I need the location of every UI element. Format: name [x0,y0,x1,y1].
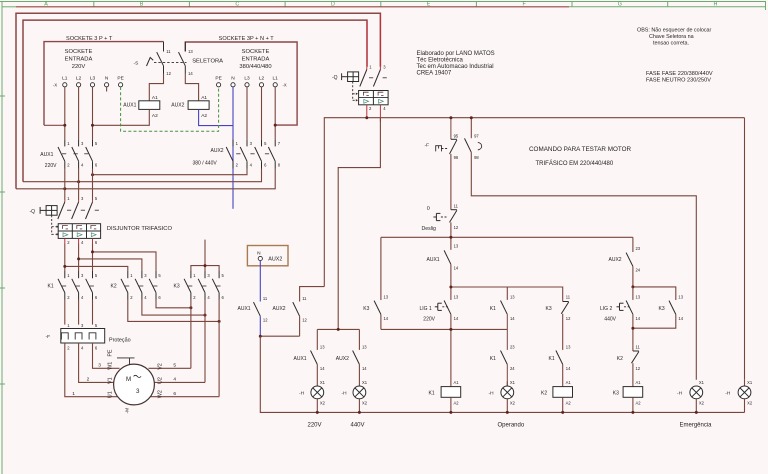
svg-text:K1: K1 [48,283,54,289]
svg-text:K1: K1 [490,306,496,312]
svg-text:11: 11 [166,49,171,54]
svg-text:X2: X2 [747,401,753,406]
contact K2 NC 11-12 [632,346,639,387]
sheet column letters [44,2,717,8]
labels K1s 13 14 [566,344,571,370]
labels AUX2 pins bottom [236,163,281,168]
svg-text:13: 13 [188,49,193,54]
labels AUX1 pins top [67,141,98,146]
svg-text:U2: U2 [157,377,163,384]
svg-text:23: 23 [636,246,641,251]
svg-text:TRIFÁSICO EM 220/440/480: TRIFÁSICO EM 220/440/480 [536,160,614,167]
wire top feed [16,6,569,8]
svg-text:X2: X2 [362,400,368,405]
labels K2 pins top [130,273,161,278]
svg-text:11: 11 [566,294,571,299]
svg-text:12: 12 [636,366,641,371]
labels Deslig pins [454,204,459,230]
labels AUX1lamp pins [320,344,325,370]
terminal L1 right [273,83,277,87]
motor PE lead [108,349,135,365]
label SELETORA [192,59,223,65]
svg-text:AUX2: AUX2 [273,306,286,312]
svg-text:L2: L2 [76,76,82,82]
svg-text:X1: X1 [699,380,705,385]
wire AUX2N feed [300,287,325,302]
labels K3 pins bottom [193,295,224,300]
contactor AUX2 contacts [226,140,275,169]
junction Q1 out2 [365,116,368,119]
svg-text:K1: K1 [429,391,435,397]
junction K2 feed R [63,265,66,268]
svg-text:440V: 440V [604,317,616,323]
svg-text:W2: W2 [157,390,163,398]
svg-text:AUX1: AUX1 [294,356,307,362]
svg-text:K3: K3 [546,306,552,312]
svg-text:A2: A2 [636,401,642,406]
junction rail top [449,116,452,119]
wire K1seal drop [506,287,508,300]
label LIG2 [600,306,612,312]
wire rail drop 95 [450,118,452,138]
text FASE [646,71,713,84]
label AUX1 lamp contact [294,356,307,362]
contact seletora 11-12 [157,42,164,74]
text elaborado [417,51,495,77]
wire K1 coil to bus [450,397,452,412]
svg-text:14: 14 [678,316,683,321]
label -Q disjuntor [30,209,36,215]
labels Q1 pins bottom [369,106,386,111]
contact LIG2 NO [626,301,633,346]
svg-text:K2: K2 [541,391,547,397]
motor M1 circle [114,364,155,405]
wire disjuntor out 6 [92,238,94,270]
junction 632 286 [631,285,634,288]
wire Q1 out4 red [379,105,381,122]
label A2 AUX2 [201,113,207,119]
wire lamp H4 to bus [695,399,697,413]
svg-text:A2: A2 [454,401,460,406]
wire K3seal feed [633,287,676,300]
wire N bus segment [260,335,299,337]
labels motor wire numbers right [173,362,176,396]
wire motor W1 [93,343,120,368]
label pin 12 [166,71,171,76]
wire lamp H3 to bus [506,399,508,413]
breaker Q2 poles [58,201,99,219]
svg-text:ENTRADA: ENTRADA [242,57,270,63]
junction bus R [63,187,66,190]
svg-text:SOCKETE: SOCKETE [65,49,93,55]
contact K1 series 13-14 [556,351,563,387]
labels AUX2 pins top [236,141,281,146]
wire red stub Q1 pin3 [379,14,381,67]
svg-text:98: 98 [474,155,479,160]
junction K2-K3 R [218,320,221,323]
label 220V LIG1 [423,317,435,323]
junction K3 bridge [204,264,207,267]
coil K3 [613,380,643,405]
svg-text:-M: -M [125,408,131,414]
svg-text:380 / 440V: 380 / 440V [193,161,218,167]
wire L1 drop left [64,87,66,140]
socket box 220V bottom left [44,124,65,126]
label AUX2 coil [171,103,184,109]
wire L3 drop right [246,87,248,140]
svg-text:D: D [427,205,431,211]
svg-text:-H: -H [489,391,495,397]
breaker Q1 poles [360,67,387,87]
breaker Q2 actuator [40,206,57,216]
label AUX1 seal [427,257,440,263]
label -F ladder [425,143,430,149]
labels overload pins bottom [67,345,98,350]
socket box 220V frame [44,42,164,126]
terminal PE right [217,83,221,87]
svg-text:440V: 440V [351,423,365,429]
junction V2 tee [337,328,340,331]
svg-text:V1: V1 [107,377,113,384]
labels AUX2N pins [302,296,307,323]
coil K2 [541,380,573,405]
svg-text:220V: 220V [308,423,322,429]
svg-text:13: 13 [566,344,571,349]
wire bus 329 [381,328,507,330]
label SOCKETE 3P+N+T [219,36,275,42]
wire control bus top [324,118,744,287]
label -Q top [332,75,338,81]
labels AUX2lamp pins [362,344,367,370]
svg-text:L2: L2 [259,76,265,82]
terminal N node [258,256,262,260]
label K1 seal [490,306,496,312]
label 440V lamp [351,423,365,429]
svg-text:12: 12 [566,316,571,321]
svg-text:-X: -X [53,83,57,88]
svg-text:-Q: -Q [332,75,338,81]
svg-text:13: 13 [384,294,389,299]
wire 97 drop [470,118,472,138]
selector lever -S [147,58,154,67]
label 220V lamp [308,423,322,429]
lamp H4 emergency [677,380,705,405]
svg-text:-H: -H [299,391,305,397]
svg-text:14: 14 [454,266,459,271]
svg-text:A1: A1 [636,380,642,385]
junction H4 bus [695,411,698,414]
label AUX2 block [211,148,224,154]
label Emergencia [680,423,713,429]
svg-text:SELETORA: SELETORA [192,59,223,65]
wire loop L2 inner [23,20,367,182]
svg-text:X1: X1 [362,380,368,385]
wire emergency rail right [744,118,746,380]
sheet row ticks [0,96,5,384]
labels K1 13 14 [510,294,515,320]
svg-text:13: 13 [678,294,683,299]
breaker Q1 linkage dashed [353,82,358,102]
svg-text:N: N [231,76,235,82]
sheet column ticks [94,2,668,7]
svg-text:12: 12 [302,317,307,322]
svg-text:K3: K3 [363,306,369,312]
wire K3 out W2 [218,300,220,397]
svg-text:Téc Eletrotécnica: Téc Eletrotécnica [417,58,464,64]
coil K1 [429,380,461,405]
lamp H3 operando [489,380,516,405]
svg-text:220V: 220V [423,317,435,323]
svg-text:A1: A1 [454,380,460,385]
junction rail 237 [449,236,452,239]
wire motor W2 [151,396,220,398]
lamp H5 emergency [725,380,753,406]
labels motor terminals left [107,362,113,398]
svg-text:Operando: Operando [498,423,525,429]
svg-text:AUX1: AUX1 [123,103,136,109]
svg-text:97: 97 [474,134,479,139]
label socket entrada 220 [65,49,93,70]
contact K3 seal 13-14 [633,301,676,329]
svg-text:CREA 19407: CREA 19407 [417,71,452,77]
svg-text:A1: A1 [566,380,572,385]
labels disjuntor pins top [67,196,98,201]
svg-text:-H: -H [725,391,731,397]
labels K3seal pins [678,294,683,321]
wire branch 237 to AUX2 [381,236,633,238]
labels 95 96 [454,134,459,160]
labels K1 pins bottom [67,295,98,300]
svg-text:Proteção: Proteção [109,338,131,344]
wire AUX2 A2 to N blue [199,109,233,125]
svg-text:K3: K3 [659,306,665,312]
svg-text:13: 13 [454,294,459,299]
svg-text:220V: 220V [45,163,57,169]
svg-text:-F: -F [46,334,51,340]
wire K3 coil to bus [632,397,634,412]
svg-text:AUX2: AUX2 [609,257,622,263]
svg-text:L1: L1 [62,76,68,82]
labels AUX1 pins bottom [67,163,98,168]
svg-text:AUX2: AUX2 [336,356,349,362]
wire bus phase S [23,169,262,182]
svg-text:K3: K3 [613,391,619,397]
svg-text:A2: A2 [152,113,158,119]
breaker Q2 trip box [58,224,100,239]
label N node [257,251,261,257]
label -X right [283,83,287,88]
wire rail440 [632,287,634,300]
svg-text:SOCKETE 3 P + T: SOCKETE 3 P + T [66,36,113,42]
svg-text:2: 2 [87,377,90,383]
svg-text:11: 11 [636,344,641,349]
button LIG1 actuator [435,303,449,310]
svg-text:W1: W1 [107,362,113,370]
svg-text:11: 11 [302,296,307,301]
junction L3 box bottom [91,124,94,127]
breaker Q2 linkage dashed [52,215,59,235]
svg-text:U1: U1 [107,391,113,398]
contact LIG1 NO [444,301,451,387]
svg-text:L3: L3 [90,76,96,82]
svg-text:H: H [714,2,718,8]
label Operando [498,423,525,429]
svg-text:Emergência: Emergência [680,423,713,429]
junction lamp H1 bus [316,411,319,414]
terminal L2 left [77,83,81,87]
svg-text:OBS: Não esquecer de colocar: OBS: Não esquecer de colocar [637,28,712,34]
svg-text:AUX2: AUX2 [211,148,224,154]
label pin 13 [188,49,193,54]
text OBS [637,28,712,47]
wire K2 out 6 [156,300,191,308]
label socket entrada 440 [239,49,271,70]
svg-text:K3: K3 [174,283,180,289]
terminal L3 left [90,83,94,87]
labels LIG1 pins [454,294,459,320]
wire PE dashed green [121,87,219,131]
labels terminals left socket [62,76,124,82]
svg-text:X2: X2 [320,400,326,405]
terminal L3 right [245,83,249,87]
svg-text:G: G [618,2,622,8]
svg-text:380/440/480: 380/440/480 [239,64,271,70]
button LIG2 actuator [617,303,631,310]
coil AUX1 [139,101,160,110]
svg-text:AUX1: AUX1 [238,306,251,312]
junction bus T [91,173,94,176]
svg-text:LIG 1: LIG 1 [420,306,432,312]
svg-text:N: N [105,76,109,82]
svg-text:3: 3 [98,362,101,368]
wire bus phase R [16,169,275,189]
junction K2 feed S [77,257,80,260]
label AUX2 node [268,256,282,262]
breaker Q2 trip internals [63,226,97,237]
svg-text:FASE NEUTRO 230/250V: FASE NEUTRO 230/250V [646,78,711,84]
svg-text:14: 14 [384,316,389,321]
wire motor V2 [149,367,191,369]
wire K3 out U2 [204,300,206,383]
contact AUX2 23-24 [626,237,633,287]
wire 98 to emergency1 [471,152,696,379]
svg-text:-Q: -Q [30,209,36,215]
svg-text:3: 3 [136,388,140,395]
wire motor U1 [65,343,118,397]
label A1 AUX1 [152,95,158,101]
contact F1 97-98 [465,138,482,153]
junction rail 283 [449,286,452,289]
label A2 AUX1 [152,113,158,119]
svg-text:PE: PE [108,349,114,356]
label K3 [174,283,180,289]
contactor K2 poles [121,271,157,300]
svg-text:M: M [126,376,131,383]
svg-text:COMANDO PARA TESTAR MOTOR: COMANDO PARA TESTAR MOTOR [529,146,631,153]
label K1 series [549,356,555,362]
terminal N left [105,83,109,92]
label Protecao [109,338,131,344]
label K3 interlock [546,306,552,312]
label AUX1 block [40,152,53,158]
svg-text:24: 24 [510,366,515,371]
svg-text:K2: K2 [111,283,117,289]
svg-text:K1: K1 [490,356,496,362]
label pin 11 [166,49,171,54]
label A1 AUX2 [201,95,207,101]
wire L3 drop left [92,87,94,140]
svg-text:X1: X1 [510,380,516,385]
wire disjuntor out 4 [78,238,80,270]
wire K1 out drops [65,300,93,325]
contactor K3 poles [184,271,220,300]
contact seletora 13-14 [179,42,186,74]
wire AUX1 A2 return [93,109,150,125]
svg-text:tensao correta.: tensao correta. [653,41,689,47]
wire K3 star bridge [191,240,219,271]
labels AUX1 seal pins [454,244,459,271]
svg-text:V2: V2 [157,363,163,370]
labels K1 23 24 [510,344,515,370]
wire red stub Q1 pin1 [366,21,368,67]
contact AUX1 13-14 seal [444,250,451,300]
lamp H2 440V [342,380,368,405]
svg-text:13: 13 [454,244,459,249]
svg-text:A2: A2 [201,113,207,119]
lamp H1 220V [299,380,326,405]
labels K2NC pins [636,344,641,370]
label K3 left [363,306,369,312]
label pin 14 [188,71,193,76]
labels LIG2 pins [636,294,641,320]
label AUX2 lamp contact [336,356,349,362]
wire drop disjuntor 3 [78,169,80,201]
labels motor wire numbers left [72,362,101,396]
terminal N right [231,83,235,87]
labels K3left pins [384,294,389,321]
label SOCKETE 3P+T [66,36,113,42]
junction K2 bus [561,411,564,414]
junction lamp H2 bus [358,411,361,414]
svg-text:SOCKETE: SOCKETE [242,49,270,55]
contact AUX1 lamp 13-14 [311,329,318,386]
label 220V block [45,163,57,169]
terminal L1 left [63,83,67,87]
svg-text:-X: -X [283,83,287,88]
svg-text:13: 13 [320,344,325,349]
svg-text:A1: A1 [201,95,207,101]
label motor M [126,375,141,395]
breaker Q1 trip internals [363,92,383,103]
wire motor U2 [154,381,205,383]
svg-text:L1: L1 [273,76,279,82]
label -X left [53,83,57,88]
label AUX2 N [273,306,286,312]
wire drop disjuntor 5 [92,169,94,201]
svg-text:Deslig: Deslig [422,226,437,232]
svg-text:-F: -F [425,143,430,149]
wire V2 drop [338,118,380,330]
svg-text:FASE FASE 220/380/440V: FASE FASE 220/380/440V [646,71,713,77]
svg-text:14: 14 [636,316,641,321]
svg-text:23: 23 [510,344,515,349]
wire K3 out V2 [190,300,192,369]
svg-text:24: 24 [636,268,641,273]
svg-text:X2: X2 [510,401,516,406]
wire disjuntor out 2 [64,238,66,270]
svg-text:A2: A2 [566,401,572,406]
wire K2 coil to bus [562,397,564,412]
